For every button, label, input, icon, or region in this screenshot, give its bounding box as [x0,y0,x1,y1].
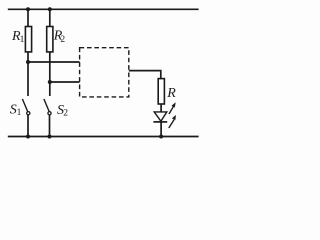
LED cathode bar [153,121,167,123]
svg-text:2: 2 [60,35,65,45]
dashed box (black box unit) [80,48,129,97]
junction dot top rail / R1 [26,7,30,11]
LED light arrow 1 head [172,102,176,107]
wire R2 branch top [49,9,51,26]
switch S1 contact circle [27,112,30,115]
junction dot top rail / R2 [48,7,52,11]
svg-text:2: 2 [63,109,68,119]
switch S1 lever [22,99,27,112]
wire top supply rail [8,8,199,10]
wire dashed box output to R [129,71,161,79]
svg-text:1: 1 [20,35,25,45]
junction dot bottom rail / LED [159,135,163,139]
wire bottom return rail [8,136,199,138]
wire R1 branch top [27,9,29,26]
resistor R1 [25,27,31,52]
svg-text:1: 1 [17,108,22,118]
wire LED to bottom rail [160,122,162,137]
LED light arrow 2 head [172,115,176,120]
wire S1 to bottom rail [27,115,29,137]
LED light arrow 2 shaft [169,120,174,128]
wire node A to dashed box input 1 [28,61,80,63]
junction dot bottom rail / S2 [48,135,52,139]
LED anode triangle [154,112,167,121]
switch S2 contact circle [48,112,51,115]
node A junction dot [26,60,30,64]
wire R2 bottom to node B [49,52,51,96]
junction dot bottom rail / S1 [26,135,30,139]
wire node B to dashed box input 2 [50,81,80,83]
switch S2 lever [44,99,49,112]
wire S2 to bottom rail [49,115,51,137]
wire R bottom to LED [160,104,162,112]
svg-text:R: R [166,86,176,101]
wire R1 bottom to node A [27,52,29,96]
resistor R2 [47,27,53,52]
resistor R [158,79,164,104]
node B junction dot [48,80,52,84]
LED light arrow 1 shaft [169,106,174,114]
